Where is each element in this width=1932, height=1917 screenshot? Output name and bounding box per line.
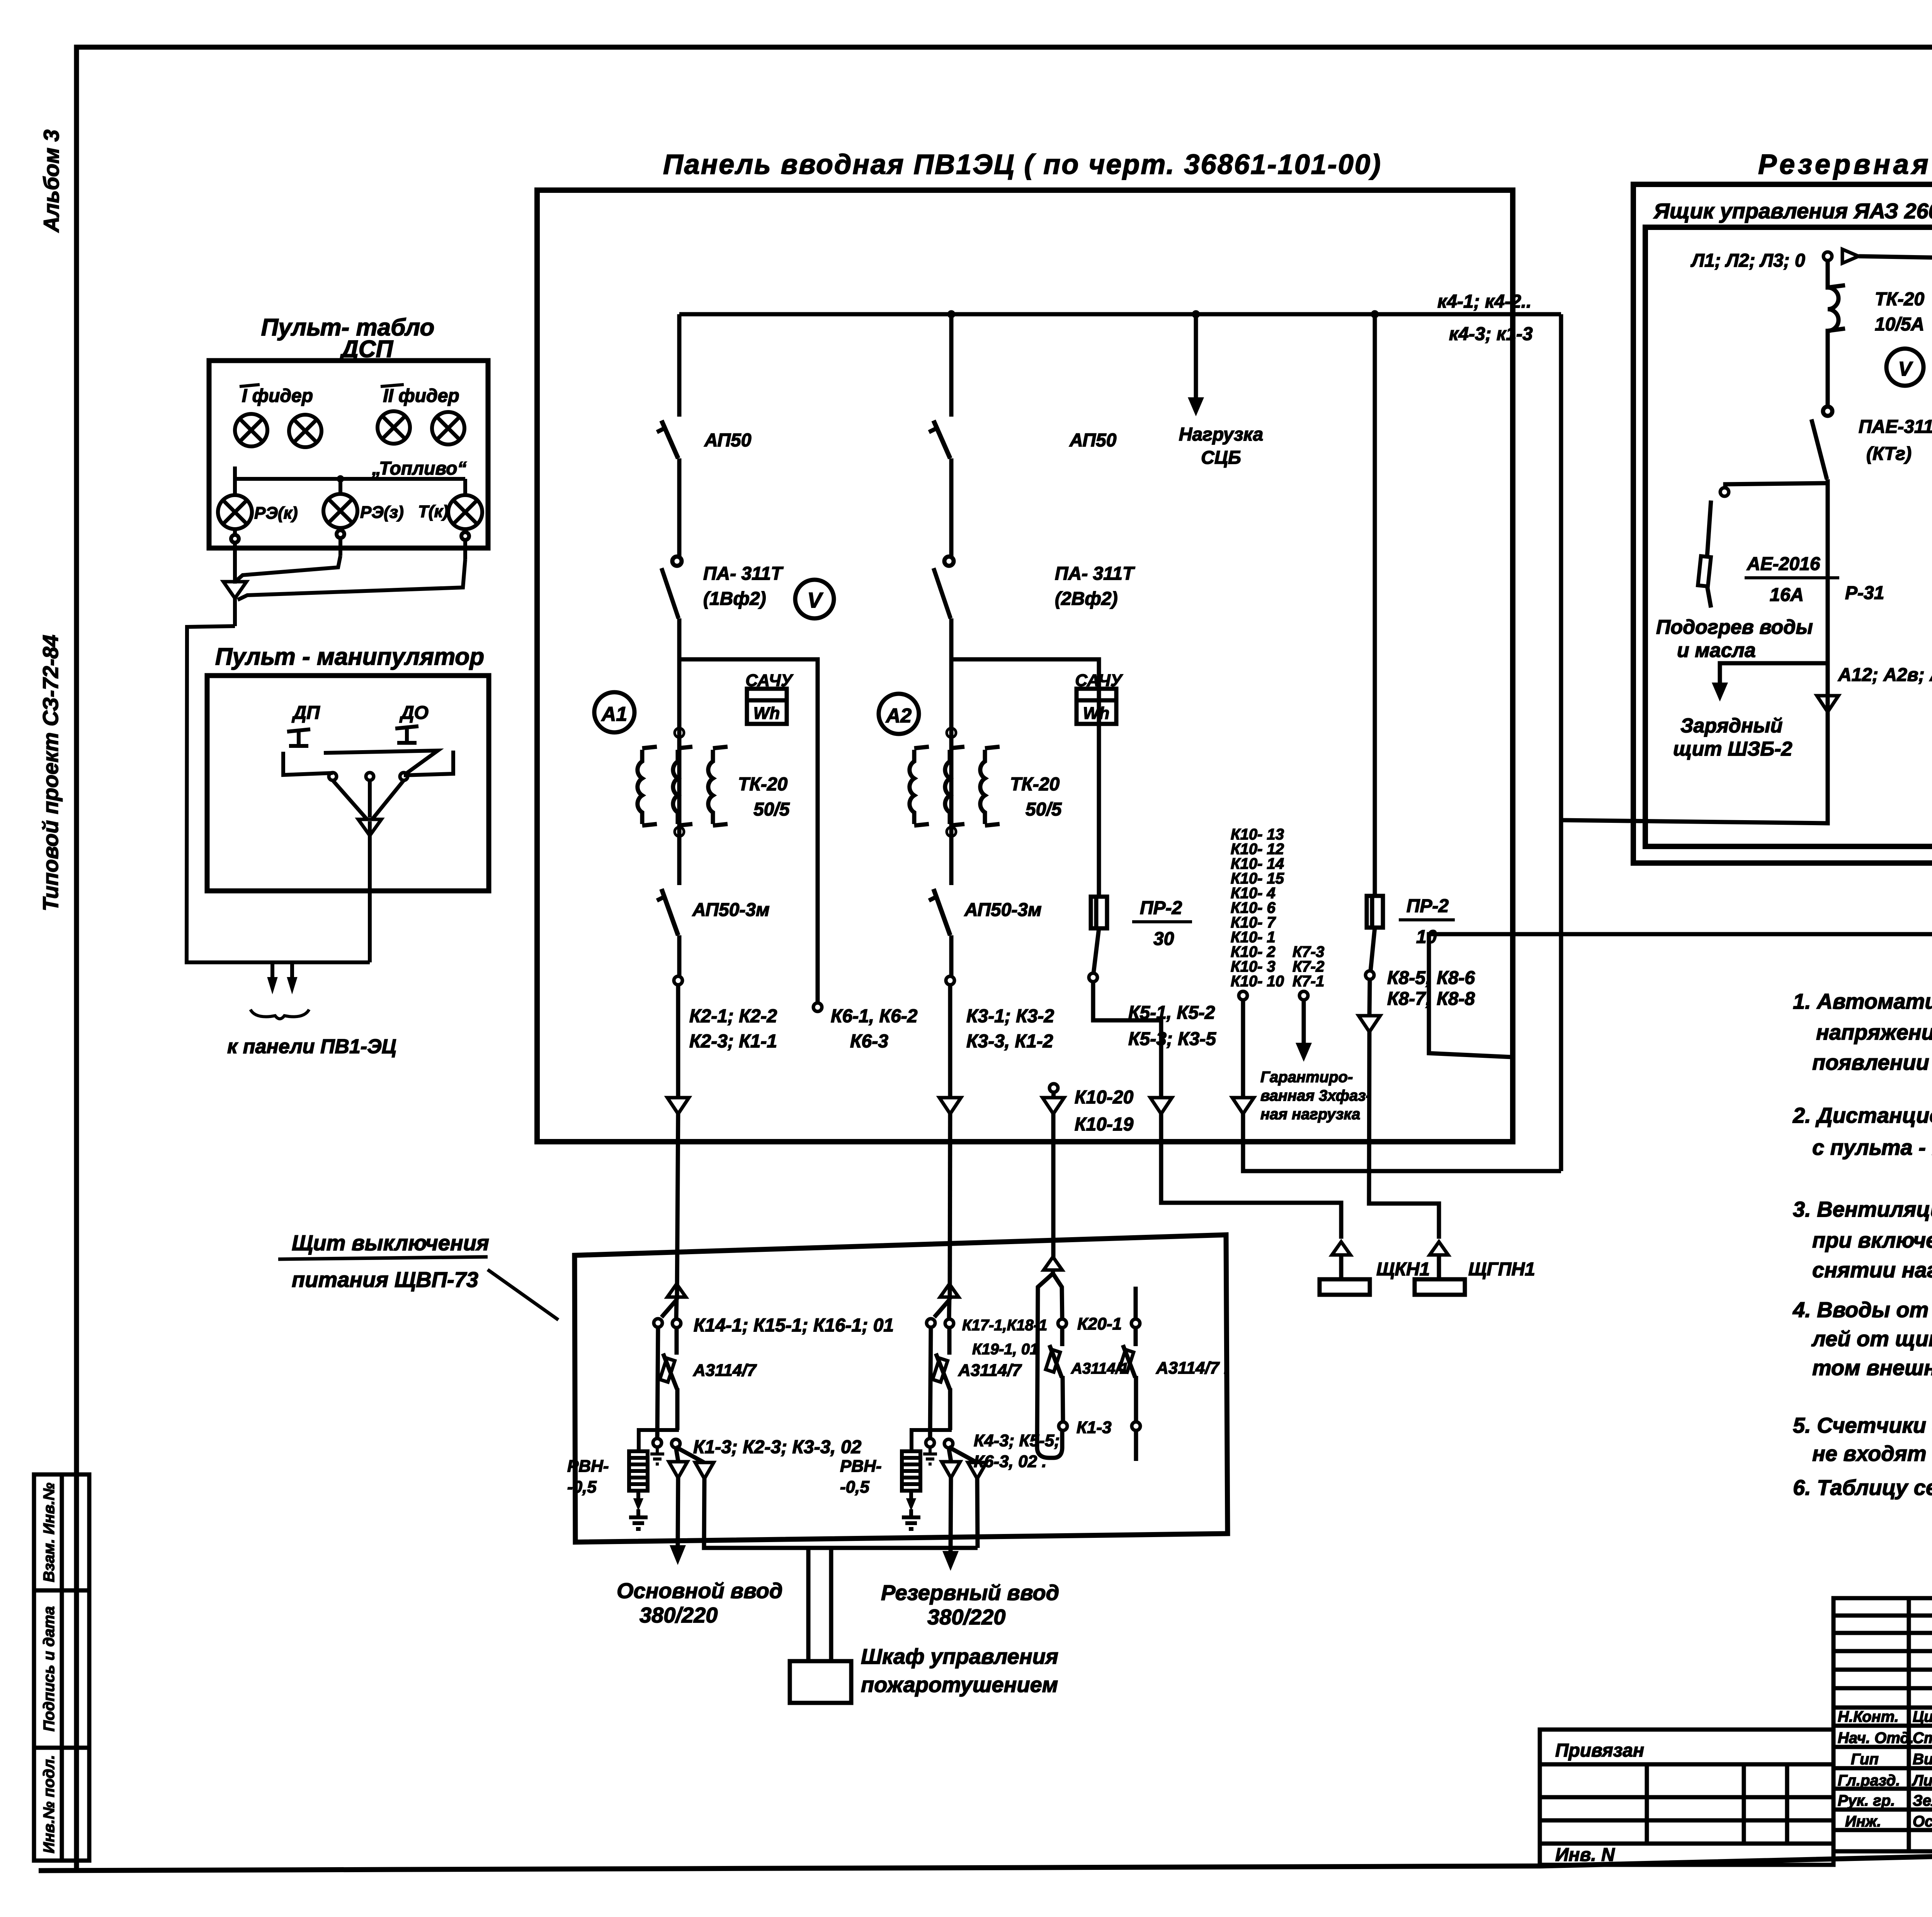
svg-text:К20-1: К20-1 bbox=[1077, 1314, 1122, 1333]
svg-text:(2Вф2): (2Вф2) bbox=[1055, 589, 1118, 609]
pushbutton ДП bbox=[283, 729, 333, 775]
down arrow in manipulator bbox=[358, 819, 381, 836]
svg-text:АЕ-2016: АЕ-2016 bbox=[1747, 554, 1820, 574]
svg-text:6. Таблицу селективности защ: 6. Таблицу селективности защитных аппара… bbox=[1793, 1475, 1932, 1500]
breaker QF8 А3114/7 blade branch4 bbox=[1119, 1345, 1135, 1377]
svg-text:К3-3, К1-2: К3-3, К1-2 bbox=[966, 1031, 1053, 1052]
up arrow to ЩКН1 bbox=[1332, 1242, 1350, 1255]
wire: down from пульт-табло to manipulator loop bbox=[187, 598, 370, 962]
meter Wh box САЧУ bbox=[747, 689, 787, 724]
mini ground under left circle bbox=[650, 1447, 664, 1464]
fuse FU1 ПР-2/30 bbox=[1091, 897, 1107, 973]
wire: feeder1 through panel bottom into ЩВП bbox=[677, 1112, 678, 1299]
box: панель вводная bbox=[537, 190, 1513, 1142]
svg-text:РЭ(з): РЭ(з) bbox=[360, 503, 404, 522]
svg-text:РВН-: РВН- bbox=[567, 1457, 609, 1476]
svg-text:ПР-2: ПР-2 bbox=[1140, 898, 1182, 918]
svg-text:РВН-: РВН- bbox=[840, 1457, 882, 1476]
box: ЩВП-73 bbox=[575, 1235, 1228, 1542]
fuse element АЕ-2016 bbox=[1698, 556, 1711, 586]
svg-text:А1: А1 bbox=[601, 703, 627, 725]
current transformer ТК-20 10/5А bbox=[1828, 284, 1845, 335]
svg-text:Щит выключения: Щит выключения bbox=[292, 1231, 489, 1255]
box: Ящик управления ЯАЗ 2601 bbox=[1645, 227, 1932, 846]
contact circles bbox=[329, 773, 337, 780]
svg-text:2. Дистанционное управление: 2. Дистанционное управление 2Э16А3 осуще… bbox=[1793, 1103, 1932, 1127]
down arrow feeder1 bbox=[667, 1098, 689, 1114]
svg-text:„Топливо“: „Топливо“ bbox=[371, 458, 466, 479]
svg-text:380/220: 380/220 bbox=[639, 1603, 718, 1627]
ammeter A2 circle bbox=[879, 694, 919, 734]
svg-text:Ящик управления ЯАЗ 2601: Ящик управления ЯАЗ 2601 bbox=[1653, 199, 1932, 223]
svg-text:5. Счетчики эл. энергии в к: 5. Счетчики эл. энергии в комплект поста… bbox=[1793, 1413, 1932, 1437]
svg-text:К2-3; К1-1: К2-3; К1-1 bbox=[689, 1031, 777, 1052]
wire: ПР-2/10 drop from bus bbox=[1373, 314, 1377, 896]
left strip boxes bbox=[34, 1474, 89, 1861]
ammeter A1 circle bbox=[594, 692, 634, 732]
svg-text:напряжения на обоих вводах: напряжения на обоих вводах переменного т… bbox=[1816, 1020, 1932, 1044]
switch QF2 АП50-3м feeder1 bbox=[657, 889, 679, 976]
svg-text:Циганова: Циганова bbox=[1913, 1708, 1932, 1725]
up arrow to ЩГПН1 bbox=[1430, 1242, 1448, 1255]
svg-text:снятии нагрузки дизеля.: снятии нагрузки дизеля. bbox=[1812, 1258, 1932, 1282]
wire: К8 route to ЩГПН1 bbox=[1369, 1030, 1439, 1239]
meter Wh box САЧУ feeder2 bbox=[1077, 689, 1116, 724]
wire: К7 line with arrow bbox=[1302, 1000, 1306, 1044]
mini ground under left circle branch2 bbox=[923, 1447, 937, 1464]
connector arrow right bbox=[1842, 249, 1859, 263]
svg-text:К17-1,К18-1: К17-1,К18-1 bbox=[962, 1317, 1047, 1334]
contact circle К6 bbox=[813, 1003, 822, 1011]
svg-text:Пульт - манипулятор: Пульт - манипулятор bbox=[215, 644, 484, 670]
wire: Л1 bus to АП50-3МТ bbox=[1859, 256, 1932, 258]
wire: К8 with down arrow bbox=[1369, 979, 1370, 1016]
svg-text:К5-3; К3-5: К5-3; К3-5 bbox=[1128, 1029, 1216, 1049]
breaker QF6 А3114/7 blade branch2 bbox=[933, 1353, 950, 1389]
lamp HL1 (I фидер) bbox=[235, 414, 267, 446]
svg-text:питания ЩВП-73: питания ЩВП-73 bbox=[292, 1267, 478, 1292]
plate ЩКН1 bbox=[1320, 1279, 1370, 1295]
svg-text:К2-1; К2-2: К2-1; К2-2 bbox=[689, 1006, 777, 1027]
wire: зарядный branch bbox=[1720, 663, 1828, 683]
switch QF1 АП50 feeder1 bbox=[657, 421, 679, 557]
contact circles К17 bbox=[927, 1319, 935, 1327]
junction dot bbox=[337, 475, 344, 482]
junction dot ПР-2/10 bbox=[1371, 310, 1379, 318]
contact circle above CT bbox=[675, 728, 684, 737]
contact circle below CT bbox=[675, 827, 684, 836]
svg-text:РЭ(к): РЭ(к) bbox=[254, 504, 298, 523]
wire: heater drop bbox=[1707, 586, 1711, 608]
arrow tips bbox=[268, 978, 277, 992]
svg-text:ПАЕ-311: ПАЕ-311 bbox=[1859, 417, 1932, 437]
svg-text:Нач. Отд.: Нач. Отд. bbox=[1838, 1730, 1914, 1747]
wire: branch1 right line to fire bus bbox=[704, 1477, 978, 1548]
junction bracket to РВН branch2 bbox=[912, 1430, 952, 1451]
svg-text:К14-1; К15-1; К16-1; 01: К14-1; К15-1; К16-1; 01 bbox=[694, 1315, 894, 1336]
svg-text:К6-1, К6-2: К6-1, К6-2 bbox=[831, 1006, 918, 1027]
voltmeter PV circle bbox=[795, 580, 834, 618]
breaker QF7 А3114/1 blade bbox=[1046, 1345, 1062, 1377]
svg-text:Инв.№ подл.: Инв.№ подл. bbox=[41, 1755, 58, 1854]
lamp РЭ(к) bbox=[218, 495, 252, 529]
ground below РВН branch1 bbox=[629, 1491, 648, 1529]
svg-text:Липинкин: Липинкин bbox=[1912, 1772, 1932, 1789]
left table Привязан bbox=[1540, 1730, 1833, 1865]
svg-text:Гарантиро-: Гарантиро- bbox=[1260, 1069, 1353, 1086]
svg-text:ТК-20: ТК-20 bbox=[738, 774, 788, 795]
svg-text:ЩКН1: ЩКН1 bbox=[1376, 1259, 1430, 1280]
svg-text:Строганов: Строганов bbox=[1913, 1730, 1932, 1747]
contact circle К2 bbox=[674, 976, 682, 985]
svg-text:пожаротушением: пожаротушением bbox=[861, 1672, 1058, 1697]
wire: branch1 main bbox=[657, 1297, 677, 1439]
junction circles branch2 bbox=[926, 1439, 934, 1447]
wire: Основной ввод drop bbox=[678, 1476, 678, 1546]
wire: fire cabinet feed lines bbox=[808, 1548, 831, 1661]
svg-text:ПА- 311Т: ПА- 311Т bbox=[1055, 564, 1135, 584]
wire: Р-31 line down and left to К4 riser bbox=[1561, 563, 1828, 823]
svg-text:ДП: ДП bbox=[291, 703, 320, 723]
svg-text:и масла: и масла bbox=[1677, 639, 1756, 662]
svg-text:при включении дизеля на на: при включении дизеля на нагрузку и отклю… bbox=[1812, 1228, 1932, 1252]
wire: feeder1 vertical through CT bbox=[677, 659, 682, 885]
svg-text:А3114/7: А3114/7 bbox=[693, 1361, 757, 1380]
svg-text:К7-1: К7-1 bbox=[1293, 973, 1324, 990]
svg-text:Зельманов: Зельманов bbox=[1913, 1792, 1932, 1809]
svg-text:щит ШЗБ-2: щит ШЗБ-2 bbox=[1673, 738, 1793, 760]
svg-text:Гип: Гип bbox=[1851, 1751, 1879, 1768]
svg-text:Панель вводная ПВ1ЭЦ ( по ч: Панель вводная ПВ1ЭЦ ( по черт. 36861-10… bbox=[663, 149, 1382, 180]
down arrow garant bbox=[1232, 1098, 1254, 1114]
svg-text:лей от щита ЩВП-73 к вводн: лей от щита ЩВП-73 к вводной панели учит… bbox=[1811, 1326, 1932, 1351]
pushbutton ДО bbox=[324, 726, 453, 775]
svg-text:16А: 16А bbox=[1770, 585, 1804, 605]
switch QF4 АП50-3м feeder2 bbox=[929, 889, 951, 976]
svg-text:50/5: 50/5 bbox=[753, 799, 790, 820]
wire: К5 route lower bbox=[1161, 1112, 1341, 1239]
svg-text:Гл.разд.: Гл.разд. bbox=[1838, 1772, 1900, 1789]
svg-text:АП50-3м: АП50-3м bbox=[964, 900, 1042, 920]
svg-text:ТК-20: ТК-20 bbox=[1875, 289, 1925, 310]
svg-text:Зарядный: Зарядный bbox=[1680, 715, 1782, 737]
contact circles К14 bbox=[654, 1319, 662, 1327]
wires converging to arrow bbox=[333, 780, 404, 819]
svg-text:К10- 10: К10- 10 bbox=[1231, 973, 1284, 990]
svg-text:Шкаф управления: Шкаф управления bbox=[861, 1644, 1058, 1668]
title block: signature table grid bbox=[1833, 1598, 1932, 1851]
switch QF3 АП50 feeder2 bbox=[929, 421, 951, 557]
svg-text:Альбом 3: Альбом 3 bbox=[39, 129, 63, 233]
plate ЩГПН1 bbox=[1415, 1279, 1465, 1295]
svg-text:Основной ввод: Основной ввод bbox=[617, 1578, 782, 1603]
svg-text:Т(к): Т(к) bbox=[418, 502, 448, 521]
contact circle К3 bbox=[946, 976, 954, 985]
wire: К10-20 К10-19 drop bbox=[1049, 1084, 1058, 1092]
svg-text:К10-19: К10-19 bbox=[1075, 1114, 1134, 1135]
svg-text:(1Вф2): (1Вф2) bbox=[703, 589, 766, 609]
breaker QF5 А3114/7 blade bbox=[660, 1353, 677, 1389]
svg-text:380/220: 380/220 bbox=[927, 1605, 1005, 1629]
down arrow pair branch1 bbox=[669, 1462, 687, 1478]
svg-text:ПР-2: ПР-2 bbox=[1406, 896, 1449, 916]
svg-text:Взам. Инв.№: Взам. Инв.№ bbox=[41, 1483, 58, 1582]
wire: feeder 1 drop bbox=[677, 314, 682, 417]
voltmeter V in ящик bbox=[1886, 349, 1923, 386]
svg-text:1. Автоматическое включение 2: 1. Автоматическое включение 2Э16А3 произ… bbox=[1793, 989, 1932, 1013]
svg-text:А12; А2в; А3в; 0: А12; А2в; А3в; 0 bbox=[1838, 665, 1932, 685]
svg-text:Подогрев воды: Подогрев воды bbox=[1656, 616, 1813, 638]
wire: lamps to box bottom with contacts bbox=[231, 528, 469, 600]
switch АЕ-2016 blade bbox=[1707, 501, 1711, 557]
down arrow К5 route bbox=[1150, 1098, 1172, 1114]
svg-text:К8-5; К8-6: К8-5; К8-6 bbox=[1387, 968, 1475, 988]
wire: К4 riser (bus to garant line) bbox=[1559, 314, 1563, 1171]
junction dot feeder2 bbox=[947, 310, 955, 318]
lamp Т(к) bbox=[448, 495, 482, 529]
svg-text:I фидер: I фидер bbox=[242, 386, 313, 406]
wire: feeder1 lower bbox=[676, 985, 680, 1098]
wire: main top bus bbox=[679, 312, 1561, 317]
wire: feeder2 measuring sub-box bbox=[951, 659, 1099, 897]
wire: branch2 main bbox=[930, 1297, 950, 1439]
fuse FU2 ПР-2/10 bbox=[1367, 896, 1383, 971]
svg-text:30: 30 bbox=[1153, 929, 1174, 949]
contact circle Л1 bbox=[1823, 252, 1832, 260]
svg-text:К6-3: К6-3 bbox=[850, 1031, 888, 1052]
resistor РВН-0,5 branch1 bbox=[629, 1451, 648, 1491]
box: пульт-манипулятор bbox=[207, 676, 489, 891]
svg-text:А2: А2 bbox=[885, 705, 912, 727]
svg-text:К4-3; К5-5;: К4-3; К5-5; bbox=[974, 1431, 1060, 1450]
wire: 205 line to panel right edge bbox=[1429, 710, 1932, 1057]
contact circle К20-1 bbox=[1058, 1319, 1066, 1328]
wire: feeder1 measuring sub-box bbox=[679, 659, 818, 1003]
up arrow feeder2 into ЩВП bbox=[940, 1284, 959, 1297]
switch QS2 ПА-311Т feeder2 bbox=[934, 557, 954, 659]
svg-text:Подпись и дата: Подпись и дата bbox=[41, 1606, 58, 1731]
wire: ЩКН1 stem bbox=[1339, 1255, 1344, 1279]
svg-text:3. Вентиляция помещения 2Э16: 3. Вентиляция помещения 2Э16А3 автоматич… bbox=[1793, 1197, 1932, 1221]
wire: feeder2 vertical through CT bbox=[949, 659, 954, 885]
contact circle К1-3 branch3 bbox=[1059, 1422, 1067, 1430]
svg-text:с пульта - манипулятора, ручн: с пульта - манипулятора, ручное - кнопка… bbox=[1812, 1135, 1932, 1159]
svg-text:АП50: АП50 bbox=[1069, 430, 1117, 451]
svg-text:V: V bbox=[1898, 358, 1913, 380]
wire: К10 garant line bbox=[1241, 1000, 1245, 1098]
wire: lamp bus bbox=[235, 466, 465, 495]
junction bracket to РВН bbox=[639, 1430, 679, 1451]
current transformer TA2 ТК-20 50/5 bbox=[910, 747, 1000, 826]
svg-text:50/5: 50/5 bbox=[1026, 799, 1062, 820]
svg-text:К1-3: К1-3 bbox=[1077, 1418, 1112, 1437]
branch4 vertical bbox=[1136, 1287, 1136, 1461]
wires: branch2 output diagonals bbox=[949, 1447, 977, 1462]
lamp HL3 (II фидер) bbox=[378, 411, 410, 444]
svg-text:появлении напряжения на одн: появлении напряжения на одном из вводов. bbox=[1812, 1050, 1932, 1074]
wire: ТК to ПАЕ-311 bbox=[1826, 335, 1830, 407]
wire: manipulator output down bbox=[368, 821, 372, 962]
svg-text:ДО: ДО bbox=[399, 703, 429, 723]
leader line bbox=[488, 1270, 558, 1320]
contact circle below CT2 bbox=[947, 827, 956, 836]
svg-text:ванная 3хфаз-: ванная 3хфаз- bbox=[1260, 1087, 1371, 1104]
svg-text:Привязан: Привязан bbox=[1555, 1740, 1644, 1761]
switch ПАЕ-311 (КТг) bbox=[1811, 407, 1832, 563]
resistor РВН-0,5 branch2 bbox=[902, 1451, 920, 1491]
svg-text:ная нагрузка: ная нагрузка bbox=[1260, 1106, 1360, 1123]
svg-text:Р-31: Р-31 bbox=[1845, 583, 1884, 603]
wire: Резервный ввод drop bbox=[951, 1476, 951, 1552]
ground arrow below lamp bus bbox=[223, 582, 247, 598]
svg-text:10/5А: 10/5А bbox=[1875, 314, 1924, 335]
svg-text:АП50-3м: АП50-3м bbox=[692, 900, 770, 920]
down arrow on Р-31 line bbox=[1817, 696, 1838, 712]
svg-text:АП50: АП50 bbox=[704, 430, 752, 451]
svg-text:II фидер: II фидер bbox=[383, 386, 459, 406]
curly brace bbox=[250, 1010, 309, 1019]
lamp РЭ(з) bbox=[323, 494, 357, 528]
svg-text:Виноградов: Виноградов bbox=[1913, 1751, 1932, 1768]
svg-text:10: 10 bbox=[1416, 927, 1437, 947]
wire: branch to АЕ-2016 bbox=[1725, 483, 1828, 488]
contact circle К10 bottom bbox=[1239, 991, 1247, 1000]
down arrow feeder2 bbox=[939, 1098, 961, 1114]
contact circle К7 bbox=[1299, 991, 1308, 1000]
wires: branch1 output diagonals bbox=[676, 1447, 704, 1462]
svg-text:к панели ПВ1-ЭЦ: к панели ПВ1-ЭЦ bbox=[227, 1035, 396, 1058]
svg-text:Инв. N: Инв. N bbox=[1555, 1845, 1615, 1865]
junction circles branch1 bbox=[653, 1439, 662, 1447]
svg-text:4. Вводы от внешних источни: 4. Вводы от внешних источников, а так же… bbox=[1793, 1297, 1932, 1322]
svg-text:А3114/7 .: А3114/7 . bbox=[1156, 1359, 1229, 1377]
svg-text:Wh: Wh bbox=[753, 704, 780, 723]
K10 column labels bbox=[1231, 826, 1324, 990]
svg-text:V: V bbox=[807, 588, 823, 612]
contact circle К8 bbox=[1366, 971, 1374, 979]
ground below РВН branch2 bbox=[902, 1491, 920, 1529]
svg-text:(КТг): (КТг) bbox=[1866, 444, 1912, 464]
svg-text:Резервный ввод: Резервный ввод bbox=[881, 1580, 1059, 1605]
svg-text:Инж.: Инж. bbox=[1845, 1813, 1881, 1830]
wire: feeder2 lower bbox=[948, 985, 952, 1098]
svg-text:Резервная электростанция: Резервная электростанция bbox=[1758, 149, 1932, 180]
svg-text:К10-20: К10-20 bbox=[1075, 1087, 1134, 1108]
svg-text:К19-1, 01: К19-1, 01 bbox=[972, 1341, 1038, 1358]
svg-text:СЦБ: СЦБ bbox=[1201, 448, 1241, 468]
lamp HL2 (I фидер) bbox=[289, 415, 321, 447]
up arrow К10-19 line into ЩВП bbox=[1044, 1257, 1062, 1270]
svg-text:Н.Конт.: Н.Конт. bbox=[1838, 1708, 1899, 1725]
wires: two drops to к панели ПВ1-ЭЦ bbox=[272, 962, 292, 978]
svg-text:том внешнего электроснабжени: том внешнего электроснабжения поста ЭЦ bbox=[1812, 1355, 1932, 1380]
wire: garant line to К4 riser bbox=[1243, 1112, 1561, 1171]
contact circle above CT2 bbox=[947, 728, 956, 737]
arrow: Нагрузка СЦБ bbox=[1194, 314, 1198, 398]
svg-text:ЩГПН1: ЩГПН1 bbox=[1468, 1259, 1535, 1280]
svg-text:К3-1; К3-2: К3-1; К3-2 bbox=[966, 1006, 1054, 1027]
svg-text:К8-7; К8-8: К8-7; К8-8 bbox=[1387, 989, 1475, 1009]
svg-text:А3114/7: А3114/7 bbox=[958, 1361, 1022, 1380]
svg-text:-0,5: -0,5 bbox=[567, 1478, 597, 1496]
current transformer TA1 ТК-20 50/5 (three coils) bbox=[638, 747, 728, 826]
junction dot СЦБ bbox=[1192, 310, 1200, 318]
box: шкаф управления пожаротушением bbox=[790, 1661, 851, 1703]
contact circles branch4 bbox=[1131, 1319, 1140, 1328]
box: пульт-табло bbox=[209, 361, 488, 548]
box: электростанция outer bbox=[1633, 184, 1932, 863]
svg-text:Wh: Wh bbox=[1083, 704, 1109, 723]
svg-text:не входят и заказываются д: не входят и заказываются дополнительно. bbox=[1812, 1441, 1932, 1466]
wire: К5 route to ЩКН1 bbox=[1093, 982, 1161, 1098]
svg-text:ТК-20: ТК-20 bbox=[1010, 774, 1060, 795]
wire: branch2 right line to fire bus bbox=[977, 1477, 978, 1548]
down arrow pair branch2 bbox=[942, 1462, 960, 1478]
wire: down from Л1 circle bbox=[1826, 260, 1830, 284]
signature table texts bbox=[1838, 1708, 1932, 1830]
wire: feeder2 through panel bottom into ЩВП bbox=[950, 1112, 950, 1299]
up arrow feeder1 into ЩВП bbox=[667, 1284, 686, 1297]
wire: feeder 2 drop bbox=[949, 314, 954, 417]
svg-text:к4-3; к1-3: к4-3; к1-3 bbox=[1449, 324, 1533, 344]
wire: ЩГПН1 stem bbox=[1437, 1255, 1441, 1279]
switch QS1 ПА-311Т feeder1 bbox=[662, 557, 682, 659]
lamp HL4 (II фидер) bbox=[432, 412, 464, 444]
svg-text:Рук. гр.: Рук. гр. bbox=[1838, 1792, 1895, 1809]
svg-text:Нагрузка: Нагрузка bbox=[1179, 424, 1263, 445]
svg-text:к4-1; к4-2..: к4-1; к4-2.. bbox=[1437, 291, 1531, 312]
contact circle АЕ-2016 bbox=[1720, 488, 1729, 496]
wire: hairpin branch3 bbox=[1037, 1270, 1063, 1458]
svg-text:-0,5: -0,5 bbox=[840, 1478, 869, 1496]
svg-text:ПА- 311Т: ПА- 311Т bbox=[703, 564, 784, 584]
svg-text:К1-3; К2-3; К3-3, 02: К1-3; К2-3; К3-3, 02 bbox=[693, 1437, 862, 1457]
svg-text:Типовой проект СЗ-72-84: Типовой проект СЗ-72-84 bbox=[38, 635, 63, 911]
svg-text:Осипова: Осипова bbox=[1913, 1813, 1932, 1830]
svg-text:Л1; Л2; Л3; 0: Л1; Л2; Л3; 0 bbox=[1690, 250, 1805, 271]
contact circle К5 bbox=[1089, 973, 1097, 982]
